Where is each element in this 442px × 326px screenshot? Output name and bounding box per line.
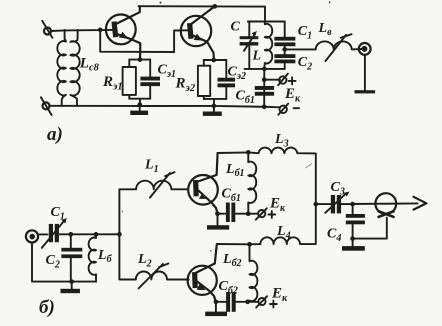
wire emitter network rails stage 2 <box>204 60 227 106</box>
node C4 tap <box>350 202 355 207</box>
svg-text:Lб: Lб <box>97 248 113 265</box>
node Ek minus <box>262 104 267 109</box>
svg-text:С4: С4 <box>327 227 341 245</box>
ground C4 <box>342 239 365 251</box>
svg-text:Сэ1: Сэ1 <box>158 63 177 81</box>
ground input (b) <box>61 282 80 294</box>
node base VT1 <box>98 28 103 33</box>
svg-text:L4: L4 <box>276 224 291 242</box>
svg-text:L: L <box>252 49 262 64</box>
terminal output (b) <box>375 193 396 217</box>
svg-text:С1: С1 <box>298 24 312 42</box>
inductor L2 <box>136 272 189 280</box>
wire to Ek plus (b top) <box>248 213 258 215</box>
svg-text:L1: L1 <box>144 158 159 176</box>
label minus (a) <box>294 107 299 109</box>
node ground stage 2 <box>212 104 217 109</box>
terminal Ek plus (a) <box>278 74 288 86</box>
svg-text:Ек: Ек <box>271 286 288 305</box>
wire to L2 <box>119 234 135 279</box>
resistor R_e1 <box>123 60 136 99</box>
capacitor C2 (a) <box>274 49 295 69</box>
resistor R_e2 <box>198 60 210 99</box>
ground stage 2 <box>203 106 222 116</box>
inductor L_b2 <box>248 244 258 301</box>
label plus (b top) <box>268 211 275 218</box>
wire to Ek plus <box>264 79 280 81</box>
svg-text:Сэ2: Сэ2 <box>228 65 247 83</box>
svg-text:С1: С1 <box>51 205 65 223</box>
inductor L_v <box>316 41 362 49</box>
capacitor C_b2 (b) <box>216 292 248 312</box>
arrow output (b) <box>414 197 427 210</box>
transformer L_sv right winding <box>70 30 79 106</box>
transformer L_sv left winding <box>57 30 66 106</box>
svg-text:Сб2: Сб2 <box>219 279 238 297</box>
svg-text:Rэ2: Rэ2 <box>175 76 196 95</box>
wire output (b) <box>353 202 418 205</box>
transistor VT4 (b bottom) <box>188 244 217 302</box>
terminal output (a) <box>359 43 371 55</box>
inductor L_b1 <box>248 152 256 213</box>
wire collector rail VT3 <box>218 151 249 154</box>
node emitter VT1 <box>138 57 143 62</box>
node ground tap (b) <box>69 279 74 284</box>
inductor L1 <box>136 181 188 190</box>
wire top rail <box>139 6 266 21</box>
capacitor C_e1 <box>140 60 160 99</box>
capacitor C_b1 (b) <box>218 203 249 223</box>
capacitor C_e2 <box>218 60 236 99</box>
svg-text:С2: С2 <box>46 253 60 271</box>
wire bottom common rail <box>50 106 281 108</box>
capacitor C1 (b) variable <box>42 218 67 248</box>
wire output to ground <box>364 56 366 91</box>
wire input return (b) <box>32 243 96 282</box>
inductor L4 <box>250 204 316 244</box>
svg-text:а): а) <box>47 124 63 145</box>
node L_b2 top <box>247 242 252 247</box>
capacitor C4 <box>346 204 365 239</box>
node Ek plus tap <box>262 77 267 82</box>
node C4 bottom <box>350 236 355 241</box>
label plus (a) <box>289 77 296 84</box>
wire terminal return <box>353 218 387 239</box>
svg-text:Сб1: Сб1 <box>222 187 241 205</box>
capacitor C3 variable <box>325 192 352 214</box>
svg-text:Ек: Ек <box>284 86 301 105</box>
terminal input top (a) <box>42 21 52 38</box>
svg-text:Rэ1: Rэ1 <box>102 74 123 93</box>
svg-text:Lв: Lв <box>318 21 333 38</box>
svg-text:Сб1: Сб1 <box>236 89 255 107</box>
node L_b2 bottom <box>245 299 250 304</box>
wire emitter network rails stage 1 <box>129 60 150 106</box>
transistor VT2 (a) <box>181 6 215 60</box>
node ground stage 1 <box>137 102 142 107</box>
inductor L3 <box>248 148 315 205</box>
node bus tap <box>313 202 318 207</box>
ground stage 1 <box>130 106 148 115</box>
transistor VT3 (b top) <box>188 153 218 214</box>
capacitor C1 (a) <box>274 22 295 50</box>
inductor L_b (b) <box>89 234 96 281</box>
node C2 tap (b) <box>68 232 73 237</box>
wire decoupling branch <box>263 69 265 107</box>
terminal Ek plus (b top) <box>256 208 267 219</box>
node emitter VT2 <box>211 58 216 63</box>
ground VT3 <box>207 214 229 230</box>
wire collector rail VT4 <box>217 243 250 245</box>
wire input (b) <box>38 233 119 235</box>
svg-text:С2: С2 <box>298 55 312 73</box>
node collector VT2 <box>212 4 217 9</box>
node L_b1 bottom <box>246 211 251 216</box>
terminal Ek plus (b bottom) <box>256 296 267 307</box>
capacitor C_b1 (a) <box>255 86 274 96</box>
terminal input bottom (a) <box>41 97 52 115</box>
wire bus to C3 <box>316 203 331 205</box>
svg-text:Ек: Ек <box>269 196 286 215</box>
svg-text:Lб2: Lб2 <box>222 252 242 269</box>
svg-text:Lб1: Lб1 <box>225 162 245 179</box>
wire input top to base VT1 <box>51 30 113 31</box>
wire tank bottom rail <box>245 68 285 70</box>
wire to Ek plus (b bottom) <box>248 301 259 303</box>
svg-text:С: С <box>231 20 241 35</box>
node emitter VT4 <box>214 299 219 304</box>
svg-text:С3: С3 <box>331 180 345 198</box>
node tap C1-C2 <box>282 47 287 52</box>
ground output (a) <box>355 90 376 93</box>
svg-text:L3: L3 <box>274 132 289 150</box>
capacitor C variable (tank) <box>240 22 259 69</box>
svg-text:L2: L2 <box>137 252 152 270</box>
transistor VT1 (a) <box>106 6 140 59</box>
svg-text:Lс8: Lс8 <box>79 56 100 74</box>
terminal input (b) <box>26 230 38 242</box>
node L_b tap (b) <box>94 232 99 237</box>
inductor L (tank) <box>264 22 272 69</box>
capacitor C2 (b) <box>61 234 82 281</box>
wire base VT1 down to base VT2 <box>100 30 188 52</box>
wire output tap to L_v <box>285 48 316 50</box>
adjuster L_v <box>325 34 351 61</box>
terminal Ek minus (a) <box>278 104 288 115</box>
node main (b) <box>117 232 122 237</box>
node tank bottom <box>262 67 267 72</box>
ground VT4 <box>205 302 227 316</box>
wire tank top rail <box>248 21 285 23</box>
label plus (b bottom) <box>270 301 277 308</box>
node L_b1 top <box>246 150 251 155</box>
node emitter VT3 <box>215 211 220 216</box>
svg-text:б): б) <box>39 297 55 318</box>
adjuster L1 <box>150 172 175 198</box>
adjuster L2 <box>139 264 169 289</box>
wire to L1 <box>119 189 136 234</box>
